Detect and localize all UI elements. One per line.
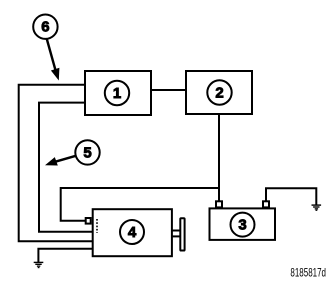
ground (left, starter ground) — [34, 262, 44, 269]
svg-text:1: 1 — [113, 85, 121, 102]
svg-text:5: 5 — [83, 144, 91, 161]
svg-text:2: 2 — [215, 85, 223, 102]
starter drive stub — [172, 230, 180, 232]
callout circle 6 — [33, 15, 57, 39]
svg-text:4: 4 — [128, 224, 137, 241]
callout circle 1 — [105, 81, 129, 105]
svg-text:3: 3 — [238, 217, 246, 234]
dashed internal lead inside starter — [96, 219, 98, 233]
box U2 (component 2) — [186, 71, 252, 114]
wire: starter bottom wire to left ground — [38, 249, 92, 262]
starter mounting flange bar — [180, 218, 184, 250]
starter solenoid terminal post — [86, 218, 91, 224]
callout circle 3 — [231, 213, 255, 237]
ground (right, battery ground) — [312, 204, 322, 211]
wire: battery negative terminal to right ground — [266, 188, 316, 204]
svg-text:6: 6 — [41, 19, 49, 36]
arrow from callout 6 to outer wire — [47, 39, 56, 72]
arrow from callout 5 to inner wire — [55, 156, 76, 162]
wire: inner loop, box1 left lower stub down to starter top wire — [39, 103, 93, 232]
box U1 (component 1) — [85, 71, 151, 115]
battery positive terminal post — [216, 201, 222, 207]
svg-text:8185817d: 8185817d — [290, 266, 326, 280]
wire: solenoid feed, battery junction left then down to starter terminal — [61, 188, 219, 221]
wire: outer loop, box1 left upper stub down to starter middle wire — [19, 85, 93, 242]
callout circle 5 — [75, 140, 99, 164]
wire: box2 bottom down to battery positive terminal — [218, 114, 220, 202]
callout circle 4 — [120, 220, 144, 244]
battery (component 3) body — [210, 208, 276, 240]
wire: box1 to box2 — [151, 89, 187, 91]
battery negative terminal post — [263, 201, 269, 207]
callout circle 2 — [207, 80, 231, 104]
starter motor (component 4) body — [93, 209, 172, 256]
